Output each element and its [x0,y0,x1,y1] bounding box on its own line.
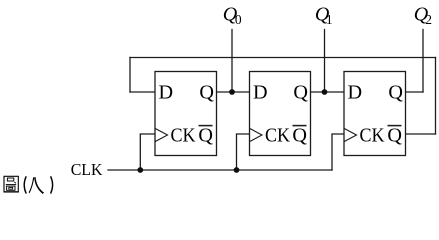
wire: Q1 to D2 [217,91,250,93]
圖 top small mouth [7,178,13,181]
svg-text:Q: Q [293,82,308,104]
svg-text:Q: Q [292,125,307,147]
node: Q0 junction dot [229,89,235,95]
wire: CK3 branch [332,134,344,170]
svg-text:1: 1 [326,12,333,27]
wire: CK2 branch [237,134,250,170]
wire: Q3 output to corner [406,91,424,93]
圖 middle horizontal [6,184,16,186]
flip-flop U3 box [344,72,406,156]
svg-text:D: D [159,82,174,104]
svg-text:CLK: CLK [71,160,103,179]
U2 clock edge triangle [250,129,262,142]
圖 bottom block [7,186,15,190]
wire: left drop to D1 [129,58,131,93]
node: CLK junction dot at CK1 [137,167,143,173]
圖 outer box bottom thick [4,191,19,193]
left parenthesis [24,176,26,193]
圖 tick under mouth [14,182,16,183]
node: CLK junction dot at CK2 [234,167,240,173]
node: Q1 junction dot [322,89,328,95]
flip-flop U1 box [155,72,217,156]
wire: Q0 vertical drop [231,30,233,93]
svg-text:CK: CK [171,125,196,147]
圖 bottom inner dot [9,187,13,189]
svg-text:2: 2 [425,12,432,27]
svg-text:Q: Q [198,125,213,147]
svg-text:Q: Q [387,125,402,147]
right parenthesis [51,176,53,193]
flip-flop U2 box [250,72,311,156]
wire: CK1 branch [140,134,155,170]
U3 clock edge triangle [344,129,356,142]
wire: Q2 to D3 [311,91,345,93]
wire: right rail up [435,58,437,135]
wire: top feedback rail [130,57,436,59]
svg-text:Q: Q [388,82,403,104]
svg-text:Q: Q [199,82,214,104]
svg-text:0: 0 [235,12,242,27]
U1 clock edge triangle [155,129,167,142]
caption 圖(八) drawn as vector strokes [4,176,53,194]
svg-text:CK: CK [265,125,290,147]
svg-text:CK: CK [360,125,385,147]
wire: Q1 vertical drop [324,30,326,93]
svg-text:D: D [348,82,363,104]
八 right stroke [34,177,44,194]
wire: Q̄3 output to right rail [406,133,436,135]
圖 outer box [4,176,18,192]
wire: CLK rail [108,169,332,171]
八 left stroke [29,177,35,193]
wire: into D1 input [130,91,155,93]
svg-text:D: D [253,82,268,104]
wire: Q2 vertical drop [422,30,424,93]
